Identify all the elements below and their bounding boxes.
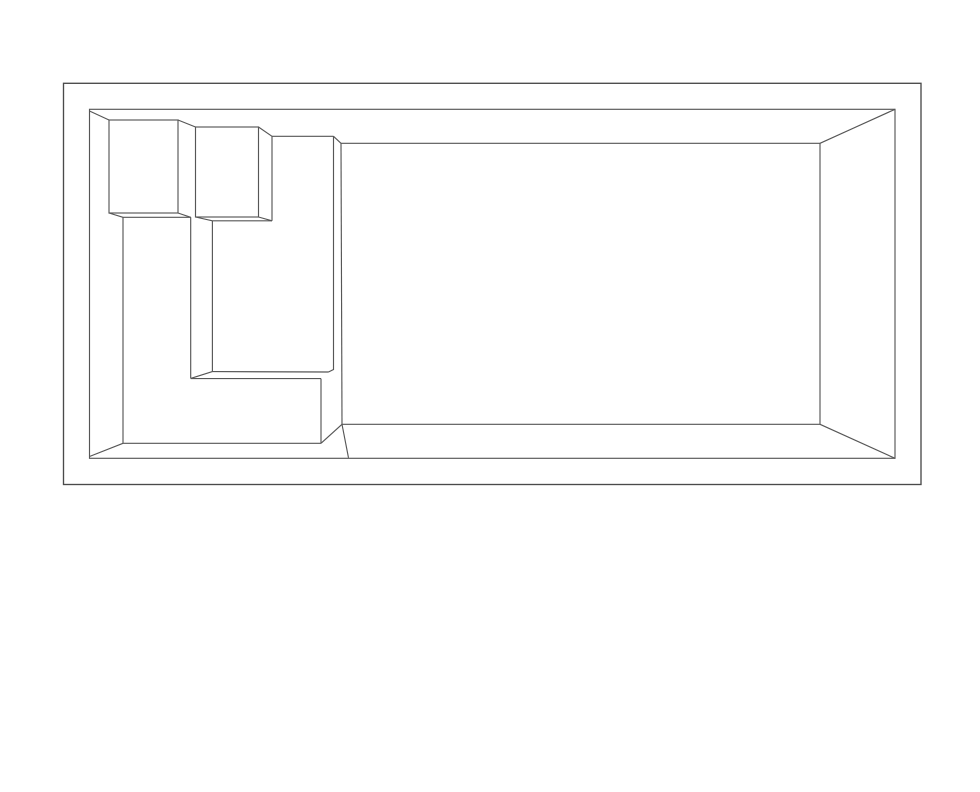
- chamfer B bottom-left: [196, 217, 213, 221]
- vertical under chamfer F: [271, 136, 273, 221]
- chamfer A bottom-right: [178, 213, 191, 217]
- step B tread: [196, 127, 259, 217]
- column B bottom edge H1: [212, 371, 328, 373]
- column A left edge long: [122, 217, 124, 443]
- basin floor right edge: [819, 143, 821, 424]
- basin floor top edge: [341, 142, 820, 144]
- pool outer edge (coping): [64, 83, 922, 484]
- landing top edge H2: [191, 378, 321, 380]
- level outline vertical V1: [329, 136, 334, 372]
- step B lower outline bottom: [212, 220, 272, 222]
- column A right edge: [190, 217, 192, 378]
- slope corner top-right: [820, 109, 895, 143]
- chamfer B bottom-right: [259, 217, 273, 221]
- chamfer top-left corner: [90, 111, 110, 120]
- lower level top edge: [272, 135, 334, 137]
- chamfer A bottom-left: [109, 213, 123, 217]
- step A tread: [109, 120, 178, 213]
- diagonal landing to floor: [321, 424, 342, 443]
- slope stub bottom-left: [342, 424, 349, 458]
- chamfer step A to B: [178, 120, 196, 127]
- chamfer column A to H1: [191, 372, 213, 379]
- column B left edge: [211, 221, 213, 372]
- landing right edge: [320, 379, 322, 444]
- column A top edge: [123, 216, 191, 218]
- basin floor bottom edge: [342, 423, 820, 425]
- slope corner bottom-right: [820, 424, 895, 458]
- pool inner edge (waterline): [90, 109, 896, 458]
- landing bottom edge H3: [123, 442, 321, 444]
- chamfer bottom-left corner: [90, 443, 124, 456]
- chamfer to basin top-left: [334, 136, 342, 143]
- chamfer step B to lower level: [259, 127, 273, 136]
- basin floor left edge: [341, 143, 342, 424]
